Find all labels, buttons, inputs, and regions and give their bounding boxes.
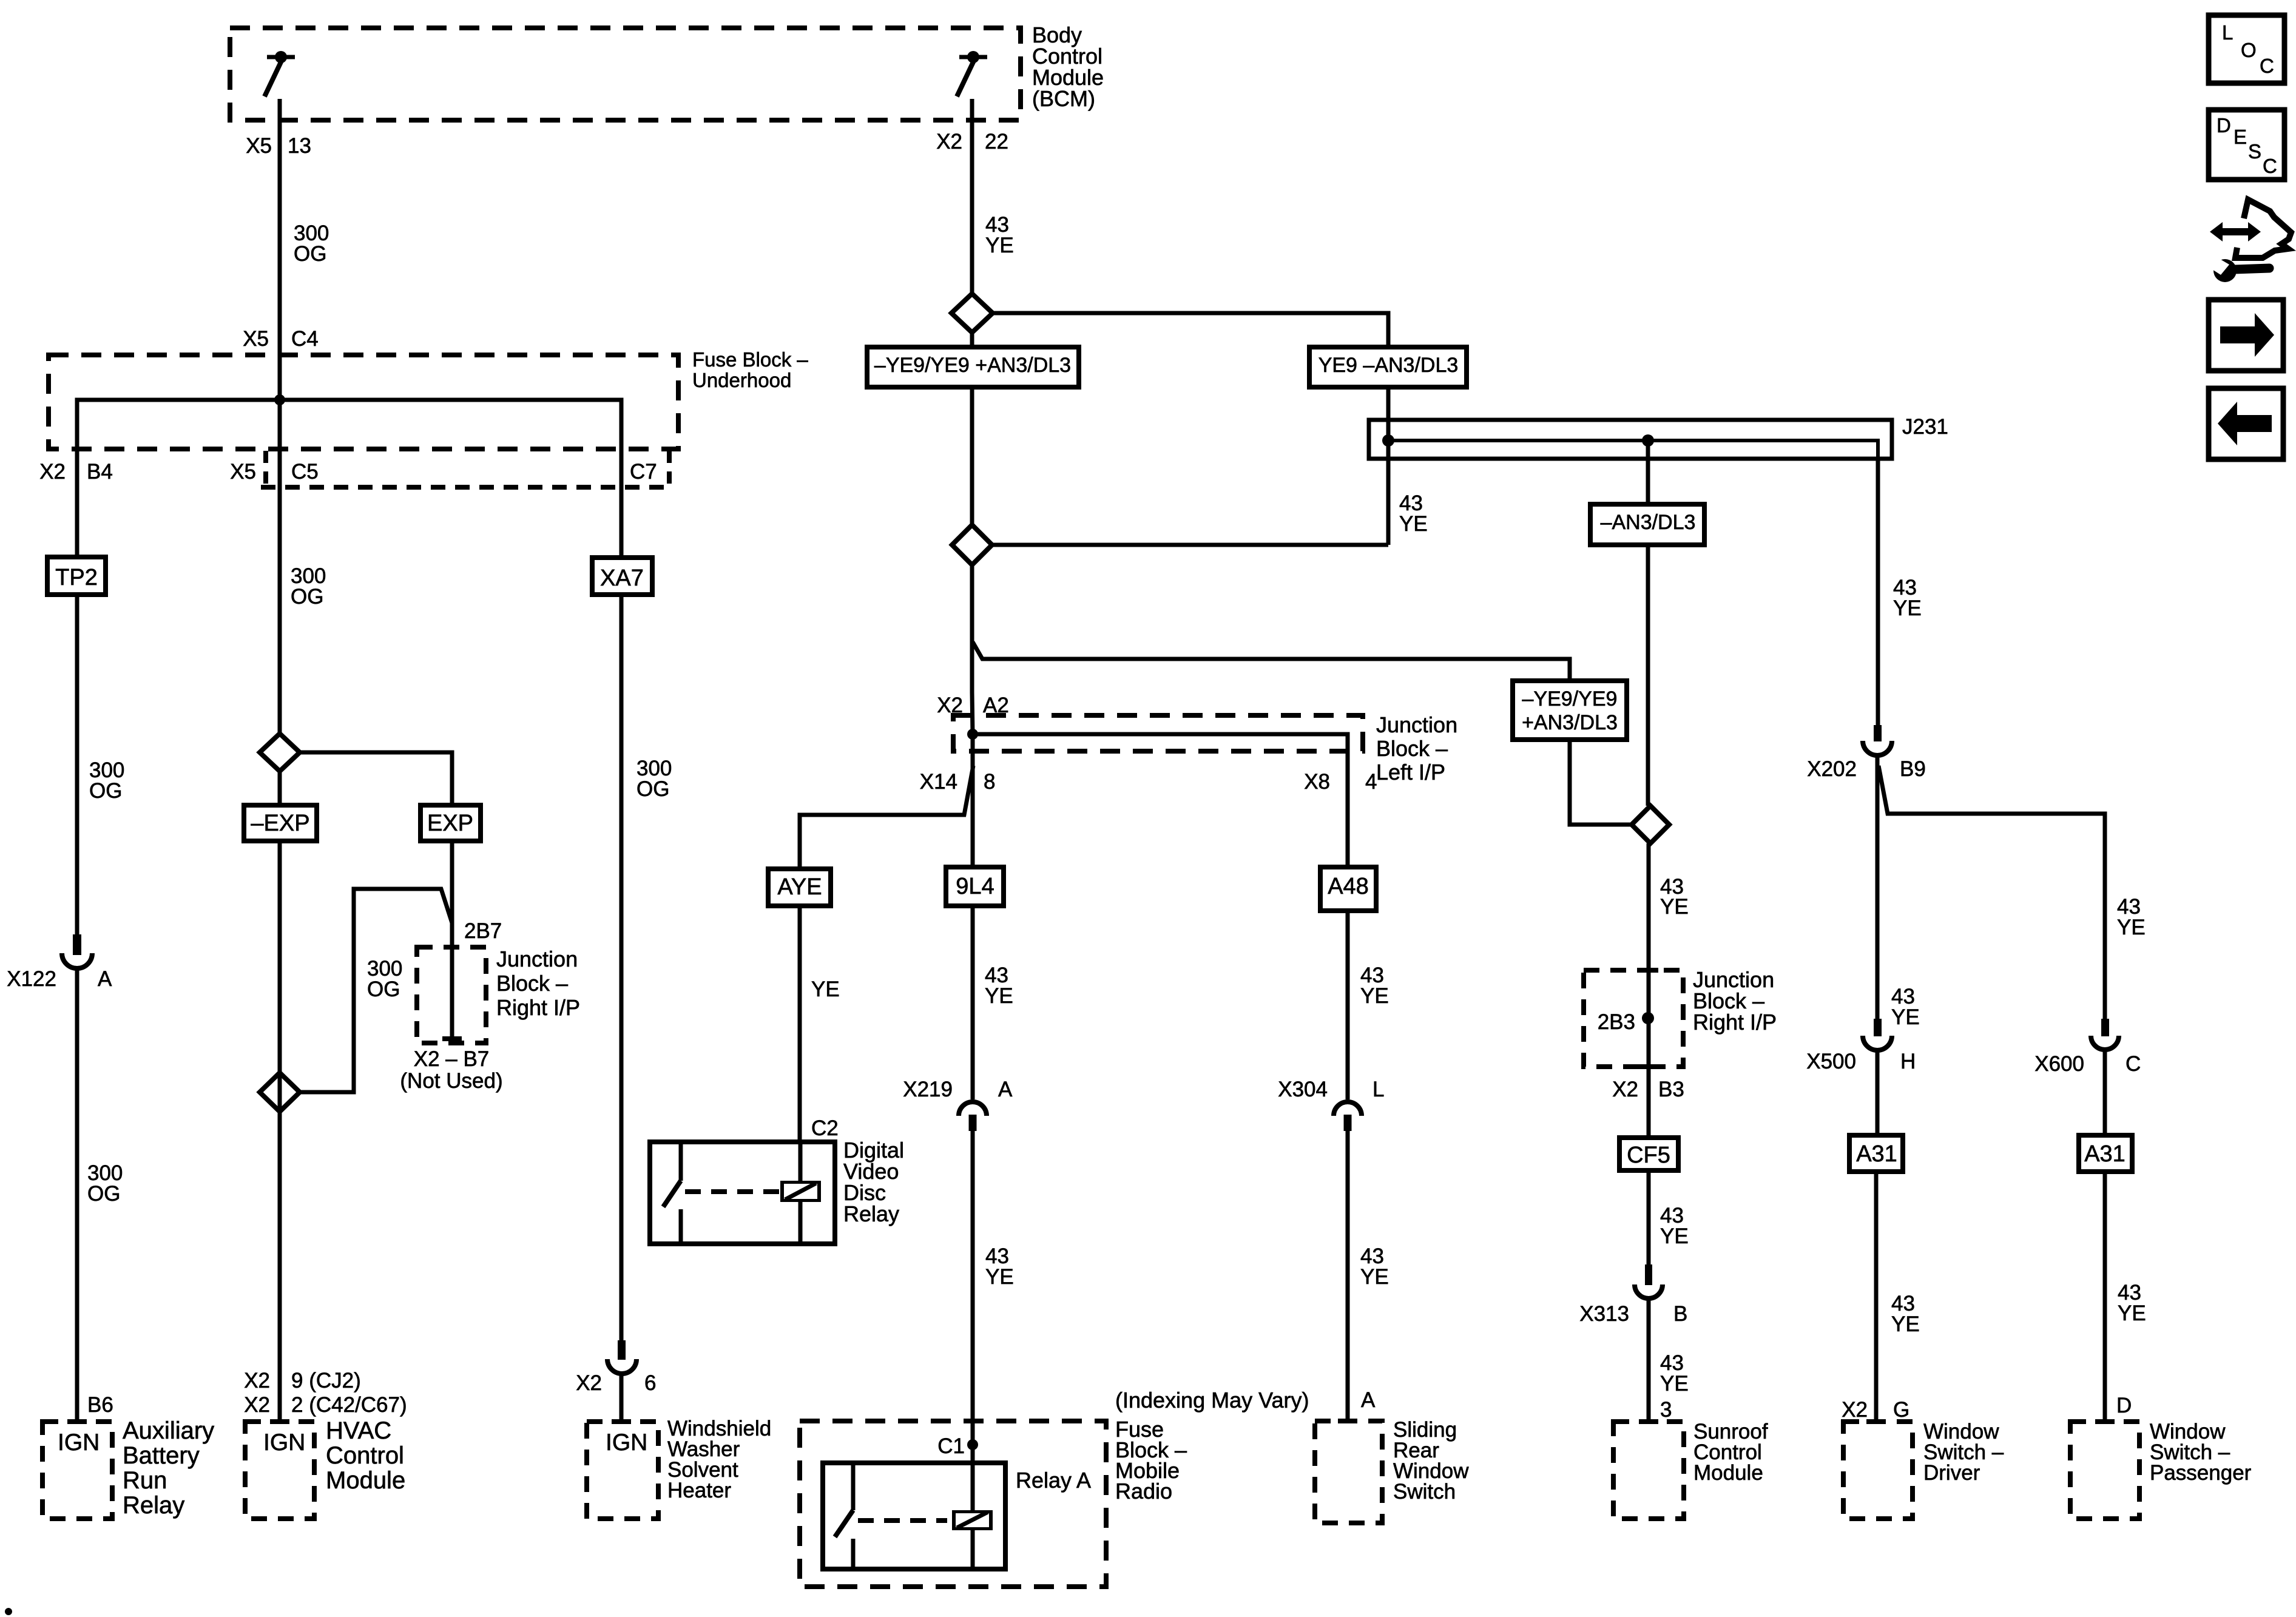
svg-text:8: 8 xyxy=(984,770,995,794)
svg-text:YE: YE xyxy=(2117,916,2146,939)
svg-text:YE: YE xyxy=(1893,596,1922,620)
svg-text:9L4: 9L4 xyxy=(956,874,994,899)
svg-text:X5: X5 xyxy=(246,134,272,158)
svg-text:Switch: Switch xyxy=(1393,1480,1456,1504)
svg-text:OG: OG xyxy=(89,779,122,803)
svg-text:Radio: Radio xyxy=(1115,1479,1172,1504)
svg-text:IGN: IGN xyxy=(58,1430,100,1456)
svg-text:Driver: Driver xyxy=(1923,1461,1980,1485)
svg-text:IGN: IGN xyxy=(606,1430,647,1456)
svg-text:–AN3/DL3: –AN3/DL3 xyxy=(1601,511,1696,534)
svg-text:YE: YE xyxy=(985,984,1013,1008)
svg-text:X2: X2 xyxy=(39,460,66,484)
svg-text:Junction: Junction xyxy=(1376,712,1457,737)
svg-text:OG: OG xyxy=(636,777,669,801)
svg-text:3: 3 xyxy=(1660,1398,1672,1422)
svg-text:Block –: Block – xyxy=(496,971,568,996)
svg-text:–YE9/YE9 +AN3/DL3: –YE9/YE9 +AN3/DL3 xyxy=(874,354,1071,377)
svg-text:XA7: XA7 xyxy=(600,565,644,591)
svg-text:YE: YE xyxy=(1660,895,1689,919)
svg-text:9 (CJ2): 9 (CJ2) xyxy=(291,1369,361,1393)
svg-text:2B3: 2B3 xyxy=(1598,1010,1635,1034)
svg-text:X2 – B7: X2 – B7 xyxy=(414,1047,490,1071)
svg-text:YE: YE xyxy=(1660,1372,1689,1396)
svg-text:OG: OG xyxy=(294,242,326,266)
svg-text:B9: B9 xyxy=(1900,757,1926,781)
svg-text:B: B xyxy=(1673,1302,1687,1326)
svg-text:C: C xyxy=(2260,55,2274,77)
svg-text:YE: YE xyxy=(2118,1301,2146,1325)
svg-text:C: C xyxy=(2263,155,2277,177)
svg-text:–YE9/YE9: –YE9/YE9 xyxy=(1522,687,1618,711)
svg-text:Battery: Battery xyxy=(123,1442,200,1469)
svg-text:YE: YE xyxy=(811,977,840,1001)
svg-text:A31: A31 xyxy=(1856,1141,1897,1167)
svg-text:YE9 –AN3/DL3: YE9 –AN3/DL3 xyxy=(1319,354,1459,377)
svg-text:A: A xyxy=(1361,1388,1376,1412)
svg-text:X14: X14 xyxy=(920,770,957,794)
svg-text:X2: X2 xyxy=(1612,1078,1638,1101)
svg-text:22: 22 xyxy=(985,130,1008,154)
svg-text:Block –: Block – xyxy=(1376,736,1448,761)
svg-text:2 (C42/C67): 2 (C42/C67) xyxy=(291,1393,407,1417)
svg-text:YE: YE xyxy=(985,234,1014,257)
svg-text:A31: A31 xyxy=(2084,1141,2125,1167)
svg-text:X219: X219 xyxy=(903,1078,953,1101)
svg-text:YE: YE xyxy=(1891,1005,1920,1029)
svg-text:(BCM): (BCM) xyxy=(1032,86,1095,111)
svg-text:C2: C2 xyxy=(811,1116,839,1140)
svg-text:C7: C7 xyxy=(630,460,657,484)
svg-text:G: G xyxy=(1893,1398,1909,1422)
svg-text:CF5: CF5 xyxy=(1627,1143,1670,1168)
svg-text:Right I/P: Right I/P xyxy=(1693,1010,1777,1035)
svg-text:D: D xyxy=(2217,114,2231,137)
svg-text:X202: X202 xyxy=(1807,757,1857,781)
svg-text:Relay: Relay xyxy=(843,1201,899,1226)
svg-text:OG: OG xyxy=(291,585,323,609)
svg-text:13: 13 xyxy=(288,134,311,158)
svg-text:X8: X8 xyxy=(1304,770,1330,794)
svg-text:Run: Run xyxy=(123,1467,167,1494)
svg-text:X304: X304 xyxy=(1278,1078,1328,1101)
svg-text:S: S xyxy=(2248,140,2261,163)
svg-text:(Not Used): (Not Used) xyxy=(400,1069,502,1093)
svg-text:AYE: AYE xyxy=(777,874,822,900)
svg-text:TP2: TP2 xyxy=(55,565,98,590)
svg-text:Left I/P: Left I/P xyxy=(1376,760,1445,785)
svg-text:C1: C1 xyxy=(937,1434,965,1458)
svg-text:X2: X2 xyxy=(1842,1398,1868,1422)
svg-text:OG: OG xyxy=(367,977,400,1001)
svg-text:C4: C4 xyxy=(291,327,319,351)
svg-text:X5: X5 xyxy=(243,327,269,351)
svg-text:J231: J231 xyxy=(1902,415,1948,439)
svg-text:IGN: IGN xyxy=(263,1430,305,1456)
svg-text:L: L xyxy=(1373,1078,1384,1101)
svg-text:D: D xyxy=(2116,1394,2132,1417)
svg-text:X2: X2 xyxy=(576,1371,602,1395)
svg-text:YE: YE xyxy=(1360,984,1389,1008)
svg-text:EXP: EXP xyxy=(427,811,473,836)
svg-text:O: O xyxy=(2241,39,2257,61)
svg-text:B6: B6 xyxy=(87,1393,113,1417)
svg-text:X313: X313 xyxy=(1579,1302,1629,1326)
svg-text:Underhood: Underhood xyxy=(692,369,791,391)
svg-text:Right I/P: Right I/P xyxy=(496,995,580,1020)
svg-text:X500: X500 xyxy=(1806,1050,1856,1073)
svg-text:B3: B3 xyxy=(1658,1078,1684,1101)
svg-text:X2: X2 xyxy=(244,1369,270,1393)
svg-text:Module: Module xyxy=(1693,1461,1763,1485)
svg-text:Junction: Junction xyxy=(496,947,578,971)
svg-text:H: H xyxy=(1900,1050,1916,1073)
svg-text:Passenger: Passenger xyxy=(2150,1461,2252,1485)
svg-text:X5: X5 xyxy=(230,460,256,484)
svg-text:A: A xyxy=(98,967,112,991)
svg-text:YE: YE xyxy=(1399,512,1428,536)
svg-text:Auxiliary: Auxiliary xyxy=(123,1417,214,1444)
svg-text:X600: X600 xyxy=(2034,1052,2084,1076)
svg-text:+AN3/DL3: +AN3/DL3 xyxy=(1522,711,1618,734)
svg-text:OG: OG xyxy=(87,1182,120,1206)
svg-text:Heater: Heater xyxy=(667,1479,731,1502)
svg-text:YE: YE xyxy=(1891,1312,1920,1336)
svg-text:B4: B4 xyxy=(87,460,113,484)
svg-text:E: E xyxy=(2234,126,2247,148)
svg-text:HVAC: HVAC xyxy=(326,1417,391,1444)
svg-text:Module: Module xyxy=(326,1467,405,1494)
svg-text:YE: YE xyxy=(1360,1265,1389,1289)
svg-text:A: A xyxy=(998,1078,1013,1101)
svg-text:YE: YE xyxy=(985,1265,1014,1289)
svg-text:2B7: 2B7 xyxy=(464,919,502,943)
svg-text:–EXP: –EXP xyxy=(251,811,309,836)
svg-text:(Indexing May Vary): (Indexing May Vary) xyxy=(1115,1388,1309,1413)
svg-text:X122: X122 xyxy=(7,967,56,991)
svg-text:Relay: Relay xyxy=(123,1492,184,1519)
svg-text:4: 4 xyxy=(1365,770,1377,794)
svg-text:A48: A48 xyxy=(1328,874,1369,899)
svg-text:Control: Control xyxy=(326,1442,404,1469)
svg-text:L: L xyxy=(2222,21,2233,44)
svg-text:Fuse Block –: Fuse Block – xyxy=(692,348,808,371)
svg-text:C: C xyxy=(2125,1052,2141,1076)
svg-text:X2: X2 xyxy=(244,1393,270,1417)
svg-text:6: 6 xyxy=(644,1371,656,1395)
svg-text:Relay A: Relay A xyxy=(1016,1468,1091,1493)
svg-text:C5: C5 xyxy=(291,460,319,484)
svg-text:YE: YE xyxy=(1660,1224,1689,1248)
svg-text:X2: X2 xyxy=(936,130,962,154)
